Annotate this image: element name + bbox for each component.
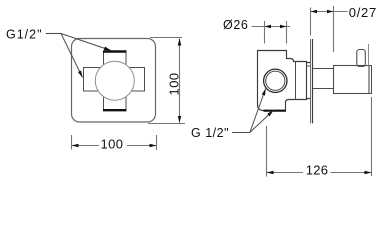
- svg-text:100: 100: [167, 73, 182, 96]
- svg-text:100: 100: [101, 137, 124, 152]
- svg-text:G 1/2": G 1/2": [191, 126, 229, 140]
- svg-text:0/27: 0/27: [349, 5, 377, 20]
- svg-text:G1/2": G1/2": [6, 28, 43, 42]
- svg-text:126: 126: [306, 163, 329, 178]
- svg-text:Ø26: Ø26: [223, 18, 248, 32]
